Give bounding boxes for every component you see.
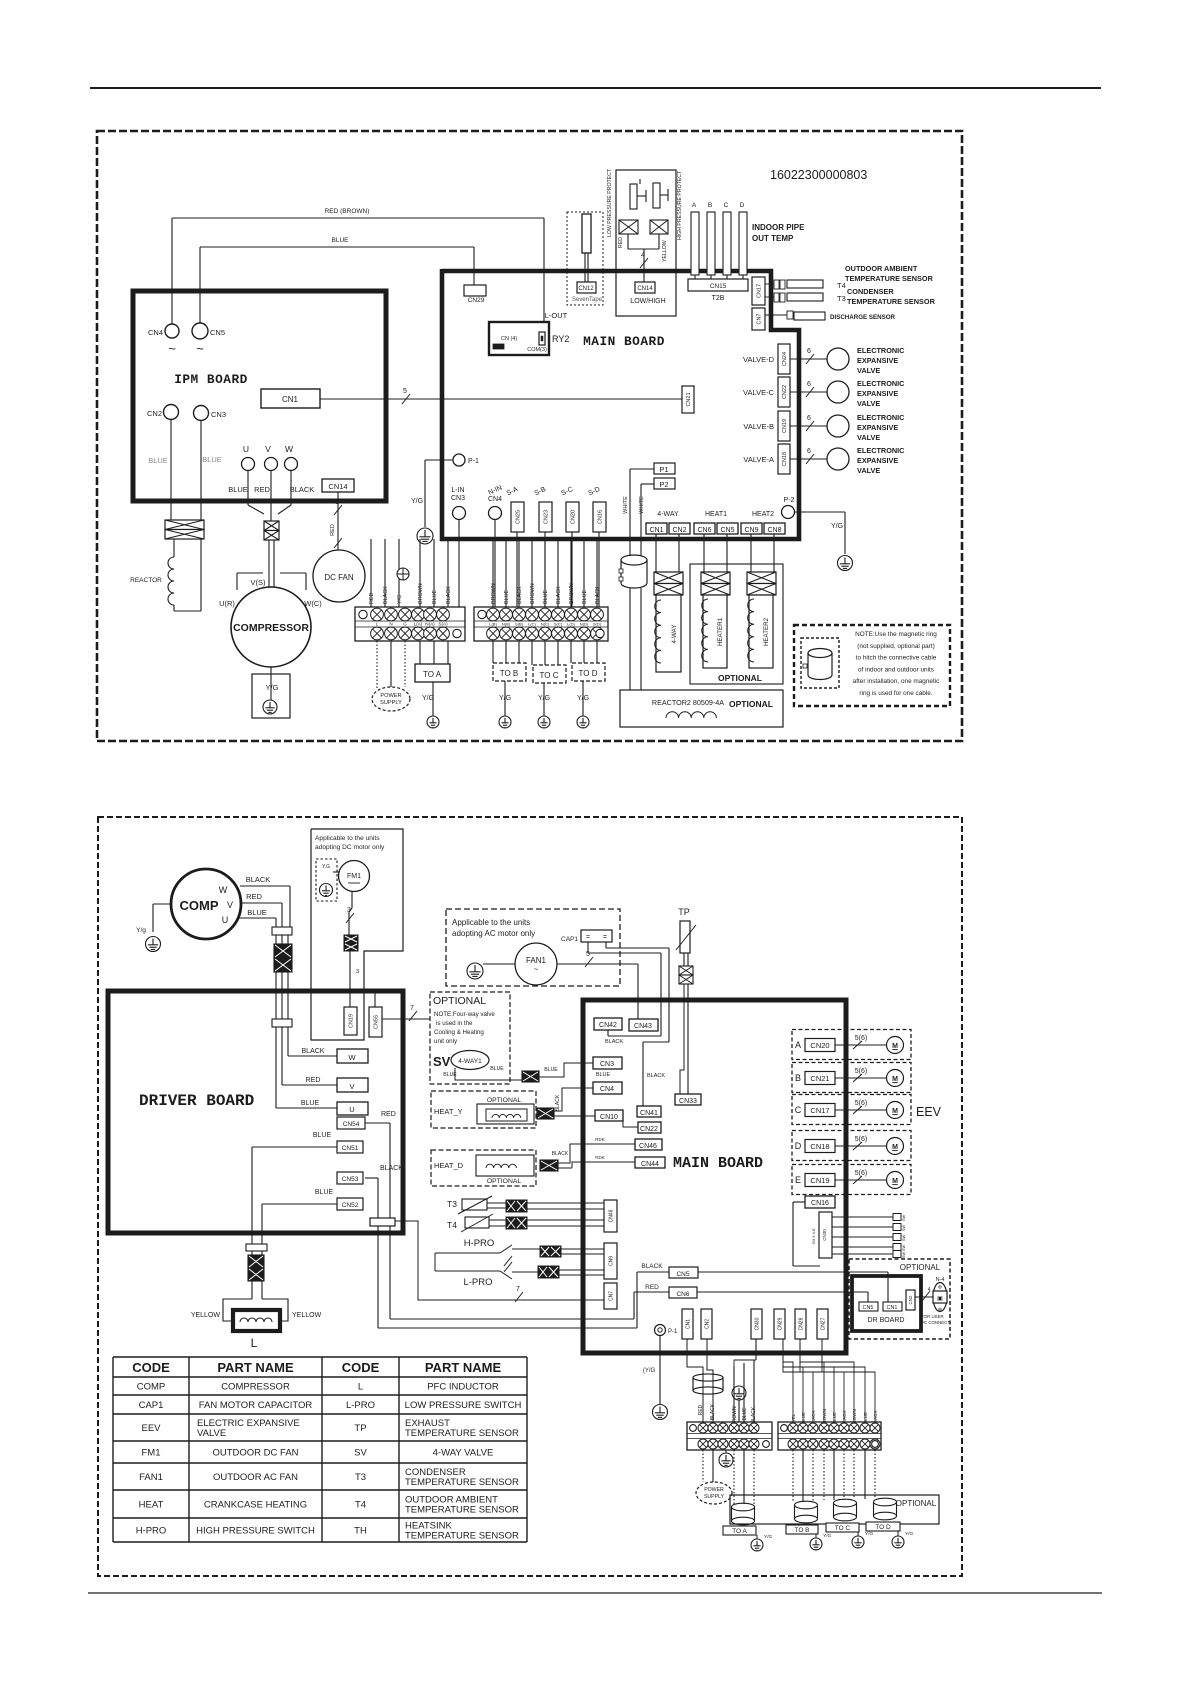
svg-text:~: ~ [168,341,176,356]
svg-text:Y/G: Y/G [865,1531,874,1537]
svg-text:OPTIONAL: OPTIONAL [433,995,486,1007]
svg-text:PFC INDUCTOR: PFC INDUCTOR [427,1382,499,1393]
svg-text:OUTDOOR AC FAN: OUTDOOR AC FAN [213,1472,298,1483]
svg-text:TEMPERATURE SENSOR: TEMPERATURE SENSOR [405,1477,519,1488]
svg-text:CN23: CN23 [543,510,549,524]
svg-text:M: M [892,1178,898,1185]
svg-text:5(6): 5(6) [855,1068,867,1075]
svg-text:CN17: CN17 [810,1106,829,1115]
svg-text:CN24: CN24 [782,352,788,366]
svg-text:CN3: CN3 [211,410,226,419]
svg-text:TO B: TO B [500,669,519,678]
svg-text:Y/G: Y/G [411,498,423,505]
svg-text:V: V [349,1082,354,1091]
svg-text:CN29: CN29 [777,1317,783,1330]
svg-text:7: 7 [410,1005,414,1012]
svg-text:T3: T3 [355,1472,366,1483]
svg-text:T4: T4 [355,1500,366,1511]
svg-text:CRANKCASE HEATING: CRANKCASE HEATING [204,1500,307,1511]
svg-text:L-IN: L-IN [451,487,464,494]
svg-text:BLUE: BLUE [313,1132,332,1139]
svg-text:L(D): L(D) [567,622,575,627]
svg-text:BLACK: BLACK [380,1165,403,1172]
svg-text:CN54: CN54 [343,1121,360,1128]
svg-text:RED: RED [698,1404,704,1415]
svg-text:CN5: CN5 [210,328,225,337]
svg-text:of indoor and outdoor units: of indoor and outdoor units [858,666,934,673]
svg-text:BLACK: BLACK [383,586,389,604]
svg-text:MAIN BOARD: MAIN BOARD [673,1155,763,1172]
svg-text:CN30: CN30 [754,1317,760,1330]
svg-text:L(B): L(B) [489,622,497,627]
svg-text:CN1: CN1 [649,527,663,534]
svg-text:T3: T3 [837,294,846,303]
svg-text:S(A): S(A) [438,622,448,627]
svg-text:CN46: CN46 [639,1143,657,1150]
svg-text:COMPRESSOR: COMPRESSOR [233,622,309,634]
svg-text:VALVE-B: VALVE-B [743,422,774,431]
svg-text:CN5: CN5 [676,1271,689,1278]
svg-text:Y.G: Y.G [322,864,330,870]
svg-text:RDK: RDK [595,1137,605,1142]
svg-text:CONDENSER: CONDENSER [847,287,894,296]
svg-text:D: D [740,202,745,209]
svg-text:CN41: CN41 [640,1110,658,1117]
svg-text:CN25: CN25 [515,510,521,524]
svg-text:ELECTRONIC: ELECTRONIC [857,413,905,422]
svg-text:HEATER1: HEATER1 [717,617,724,646]
svg-text:TO A: TO A [732,1528,747,1535]
svg-text:BLUE: BLUE [301,1100,320,1107]
svg-text:HEAT1: HEAT1 [705,511,727,518]
svg-text:BLUE: BLUE [582,590,588,604]
svg-text:L-OUT: L-OUT [545,311,568,320]
svg-text:TO A: TO A [423,670,442,679]
svg-text:4-WAY: 4-WAY [657,511,679,518]
svg-text:OPTIONAL: OPTIONAL [487,1097,522,1104]
svg-text:CODE: CODE [342,1360,380,1375]
svg-text:ELECTRONIC: ELECTRONIC [857,446,905,455]
svg-text:FAN MOTOR CAPACITOR: FAN MOTOR CAPACITOR [199,1400,313,1411]
svg-text:CN6: CN6 [676,1291,689,1298]
svg-text:CN3: CN3 [600,1061,614,1068]
svg-text:RY2: RY2 [552,334,569,344]
svg-text:Y/G: Y/G [831,523,843,530]
svg-text:BLUE: BLUE [543,590,549,604]
svg-text:HEAT2: HEAT2 [752,511,774,518]
svg-text:BROWN: BROWN [530,583,536,604]
svg-text:EXPANSIVE: EXPANSIVE [857,423,898,432]
svg-text:COMP: COMP [180,898,219,913]
svg-text:RED (BROWN): RED (BROWN) [325,208,370,215]
svg-text:FAN1: FAN1 [526,956,547,965]
svg-text:BROWN: BROWN [569,583,575,604]
svg-text:Applicable to the units: Applicable to the units [452,918,530,927]
svg-text:LOW PRESSURE SWITCH: LOW PRESSURE SWITCH [405,1400,522,1411]
svg-text:CN4: CN4 [148,328,163,337]
svg-text:VALVE: VALVE [857,466,880,475]
svg-text:TEMPERATURE SENSOR: TEMPERATURE SENSOR [845,274,934,283]
svg-text:M: M [892,1144,898,1151]
svg-text:C: C [795,1105,802,1115]
svg-text:CAP1: CAP1 [139,1400,164,1411]
svg-text:P1: P1 [659,465,668,474]
svg-text:CN2: CN2 [908,1295,913,1304]
svg-text:CN20: CN20 [810,1041,829,1050]
svg-text:B: B [795,1073,801,1083]
svg-text:T2B: T2B [712,295,725,302]
svg-text:REACTOR: REACTOR [130,577,162,584]
svg-text:4-WAY VALVE: 4-WAY VALVE [433,1448,494,1459]
svg-text:COMP: COMP [137,1382,166,1393]
svg-text:EXPANSIVE: EXPANSIVE [857,456,898,465]
svg-text:CN16: CN16 [597,510,603,524]
svg-text:OPTIONAL: OPTIONAL [896,1499,937,1508]
svg-text:BLUE: BLUE [228,485,248,494]
svg-text:W(C): W(C) [304,599,322,608]
svg-text:CN6: CN6 [697,527,711,534]
svg-text:L-PRO: L-PRO [346,1400,375,1411]
svg-text:DR BOARD: DR BOARD [868,1317,905,1324]
svg-text:4-WAY: 4-WAY [671,625,678,644]
svg-text:HIGH PRESSURE SWITCH: HIGH PRESSURE SWITCH [196,1526,315,1537]
svg-text:ring is used for one cable.: ring is used for one cable. [859,690,932,697]
svg-text:BLACK: BLACK [555,1094,561,1111]
svg-text:N(C): N(C) [541,622,550,627]
svg-text:PART NAME: PART NAME [425,1360,502,1375]
svg-text:CN14: CN14 [637,286,653,292]
svg-text:VALVE: VALVE [857,433,880,442]
svg-text:TEMPERATURE SENSOR: TEMPERATURE SENSOR [405,1505,519,1516]
svg-text:YEL: YEL [791,1413,796,1422]
svg-text:CN1: CN1 [282,395,299,404]
svg-text:P-1: P-1 [468,458,479,465]
svg-text:RDK: RDK [595,1155,605,1160]
svg-text:VALVE-A: VALVE-A [743,455,774,464]
svg-text:BLUE: BLUE [742,1407,748,1421]
svg-text:BLACK: BLACK [517,586,523,604]
svg-text:Y/g: Y/g [136,927,146,934]
svg-text:CN27: CN27 [820,1317,826,1330]
svg-text:A: A [795,1040,801,1050]
svg-text:W: W [219,885,228,895]
svg-text:U(R): U(R) [219,599,235,608]
svg-text:CN18: CN18 [782,452,788,466]
svg-text:T4: T4 [447,1220,457,1230]
svg-text:EXPANSIVE: EXPANSIVE [857,389,898,398]
svg-text:YELLOW: YELLOW [191,1312,221,1319]
svg-text:U: U [349,1105,354,1114]
svg-text:EXPANSIVE: EXPANSIVE [857,356,898,365]
svg-text:RED: RED [306,1077,321,1084]
svg-text:CN55: CN55 [373,1015,379,1029]
svg-text:=: = [603,934,607,941]
svg-text:U: U [222,915,229,925]
svg-text:P-1: P-1 [668,1329,678,1335]
svg-text:WHITE: WHITE [623,496,629,514]
svg-text:Y/G: Y/G [397,595,403,604]
svg-text:CN19: CN19 [782,419,788,433]
svg-text:M: M [892,1108,898,1115]
svg-text:BLUE: BLUE [148,456,168,465]
svg-text:H-PRO: H-PRO [464,1238,495,1249]
svg-text:RED: RED [369,593,375,604]
svg-text:BLACK: BLACK [710,1403,716,1420]
svg-text:L: L [376,622,379,627]
svg-text:▣: ▣ [937,1296,943,1302]
svg-text:CN19: CN19 [348,1014,354,1028]
svg-text:TO D: TO D [875,1524,891,1531]
svg-text:6: 6 [807,448,811,455]
svg-text:OPTIONAL: OPTIONAL [729,699,773,709]
svg-text:CN2: CN2 [147,409,162,418]
svg-text:VALVE: VALVE [197,1428,226,1439]
svg-text:BLACK: BLACK [647,1073,665,1079]
svg-text:P2: P2 [659,480,668,489]
svg-text:Y/G: Y/G [764,1534,773,1540]
svg-text:BLACK: BLACK [302,1048,325,1055]
svg-text:CN15: CN15 [710,283,727,290]
svg-text:is used in the: is used in the [436,1020,473,1027]
svg-text:L: L [358,1382,363,1393]
svg-text:CN21: CN21 [686,392,692,406]
svg-text:OUTDOOR DC FAN: OUTDOOR DC FAN [212,1448,298,1459]
svg-text:SV: SV [433,1054,451,1069]
svg-text:SW: SW [902,1245,906,1252]
svg-text:BLUE: BLUE [247,908,267,917]
svg-text:CN1: CN1 [886,1305,897,1311]
svg-text:W: W [285,444,293,454]
svg-text:CN2: CN2 [672,527,686,534]
svg-text:CN3: CN3 [451,495,465,502]
svg-text:TH: TH [354,1526,367,1537]
svg-text:6: 6 [807,415,811,422]
svg-text:TP: TP [678,907,690,917]
svg-text:PC CONNECT: PC CONNECT [921,1320,950,1325]
svg-text:SW: SW [902,1215,906,1222]
svg-text:C: C [724,202,729,209]
svg-text:OPTIONAL: OPTIONAL [900,1263,941,1272]
svg-text:LOW/HIGH: LOW/HIGH [630,298,665,305]
svg-text:L(A): L(A) [414,622,423,627]
svg-text:CN22: CN22 [782,385,788,399]
svg-text:BLACK: BLACK [595,586,601,604]
svg-text:(not supplied, optional part): (not supplied, optional part) [857,643,934,650]
svg-text:DRIVER BOARD: DRIVER BOARD [139,1092,254,1110]
svg-text:SV: SV [354,1448,367,1459]
svg-text:HEATER2: HEATER2 [763,617,770,646]
svg-text:Cooling & Heating: Cooling & Heating [434,1029,484,1036]
svg-text:CAP1: CAP1 [561,936,578,943]
svg-text:CN44: CN44 [641,1161,659,1168]
svg-text:TO B: TO B [794,1527,809,1534]
svg-text:RED: RED [645,1284,659,1291]
svg-text:B: B [708,202,712,209]
svg-text:~: ~ [534,965,539,974]
svg-text:SW: SW [902,1225,906,1232]
svg-text:RED: RED [330,524,336,536]
svg-text:CN29: CN29 [468,297,485,304]
svg-text:Y/G: Y/G [823,1533,832,1539]
svg-text:CN22: CN22 [640,1126,658,1133]
svg-text:unit only: unit only [434,1038,458,1045]
svg-text:SW: SW [902,1235,906,1242]
svg-text:5(6): 5(6) [855,1170,867,1177]
svg-text:CN7: CN7 [756,313,762,324]
svg-text:Y/G: Y/G [422,695,434,702]
svg-text:adopting AC motor only: adopting AC motor only [452,929,535,938]
svg-text:P-2: P-2 [784,497,795,504]
svg-text:3: 3 [335,499,339,506]
svg-text:S(C): S(C) [554,622,563,627]
svg-text:HEAT: HEAT [139,1500,164,1511]
svg-text:CODE: CODE [132,1360,170,1375]
svg-text:BLACK: BLACK [605,1039,623,1045]
svg-text:VALVE-D: VALVE-D [743,355,775,364]
svg-text:HIGH PRESSURE PROTECT: HIGH PRESSURE PROTECT [677,170,683,240]
svg-text:POWER: POWER [704,1487,724,1493]
svg-text:BLUE: BLUE [332,237,350,244]
svg-text:ELECTRONIC: ELECTRONIC [857,379,905,388]
svg-text:4: 4 [928,1287,931,1293]
svg-text:HEAT_Y: HEAT_Y [434,1107,463,1116]
svg-text:SevenTape: SevenTape [572,297,603,303]
svg-text:S(D): S(D) [593,622,602,627]
svg-text:SUPPLY: SUPPLY [704,1494,725,1500]
svg-text:V: V [227,900,233,910]
svg-text:L(C): L(C) [528,622,536,627]
svg-text:CN5: CN5 [720,527,734,534]
svg-text:OUT TEMP: OUT TEMP [752,234,794,243]
svg-text:FM1: FM1 [142,1448,161,1459]
svg-text:L-PRO: L-PRO [463,1277,492,1288]
svg-text:BLUE: BLUE [504,590,510,604]
svg-text:INDOOR PIPE: INDOOR PIPE [752,223,805,232]
svg-text:CN43: CN43 [634,1023,652,1030]
svg-text:B3 3 4-E: B3 3 4-E [811,1228,816,1244]
svg-text:N(A): N(A) [425,622,435,627]
svg-text:CN42: CN42 [599,1022,617,1029]
svg-text:CN1: CN1 [685,1319,691,1329]
svg-text:CN10: CN10 [600,1114,618,1121]
svg-text:BLACK: BLACK [446,586,452,604]
svg-text:Y/G: Y/G [266,683,279,692]
svg-text:IPM BOARD: IPM BOARD [174,372,248,387]
svg-text:5(6): 5(6) [855,1035,867,1042]
svg-text:N: N [389,622,392,627]
svg-text:TP: TP [354,1423,366,1434]
svg-text:BLUE: BLUE [596,1072,611,1078]
svg-text:CN51: CN51 [342,1145,359,1152]
svg-text:6: 6 [807,348,811,355]
svg-text:RED: RED [246,892,262,901]
svg-text:MAIN BOARD: MAIN BOARD [583,334,665,349]
svg-text:CN14: CN14 [328,482,347,491]
svg-text:⊕: ⊕ [938,1285,942,1291]
svg-text:CN30: CN30 [822,1229,827,1241]
svg-text:TO C: TO C [540,671,559,680]
svg-text:OPTIONAL: OPTIONAL [487,1178,522,1185]
svg-text:BLUE: BLUE [202,455,222,464]
svg-text:CN9: CN9 [744,527,758,534]
svg-text:CN5: CN5 [862,1305,873,1311]
svg-text:CN7: CN7 [608,1291,614,1301]
svg-text:OPTIONAL: OPTIONAL [718,673,762,683]
svg-text:YELLOW: YELLOW [662,240,668,262]
svg-text:SUPPLY: SUPPLY [380,700,402,706]
svg-text:OUTDOOR AMBIENT: OUTDOOR AMBIENT [845,264,918,273]
svg-text:CN52: CN52 [342,1202,359,1209]
svg-text:FAN1: FAN1 [139,1472,163,1483]
svg-text:COM(3): COM(3) [527,347,547,353]
svg-text:5: 5 [403,388,407,395]
svg-text:DC FAN: DC FAN [324,573,354,582]
svg-text:LOW PRESSURE PROTECT: LOW PRESSURE PROTECT [607,168,613,237]
svg-text:CN28: CN28 [798,1317,804,1330]
svg-text:CN4: CN4 [600,1086,614,1093]
svg-text:S(B): S(B) [515,622,524,627]
svg-text:G: G [403,622,407,627]
svg-text:CN21: CN21 [810,1074,829,1083]
svg-text:WHITE: WHITE [639,496,645,514]
svg-text:3: 3 [356,969,359,975]
svg-text:FM1: FM1 [347,873,361,880]
svg-text:CN (4): CN (4) [501,336,517,342]
svg-text:EEV: EEV [916,1105,942,1119]
svg-text:V: V [265,444,271,454]
svg-text:YELLOW: YELLOW [292,1312,322,1319]
svg-text:CN33: CN33 [679,1098,697,1105]
svg-text:7: 7 [516,1286,520,1293]
svg-text:4: 4 [641,252,645,259]
svg-text:H-PRO: H-PRO [136,1526,167,1537]
svg-text:TEMPERATURE SENSOR: TEMPERATURE SENSOR [405,1531,519,1542]
svg-text:VALVE: VALVE [857,399,880,408]
svg-text:TO D: TO D [579,669,598,678]
svg-text:BLUE: BLUE [432,590,438,604]
svg-text:CN53: CN53 [342,1176,359,1183]
svg-text:CN18: CN18 [810,1142,829,1151]
svg-text:(Y/G: (Y/G [643,1368,656,1374]
svg-text:T3: T3 [447,1199,457,1209]
svg-text:REACTOR2 80509-4A: REACTOR2 80509-4A [652,698,724,707]
svg-text:NOTE:Use the magnetic ring: NOTE:Use the magnetic ring [855,631,937,638]
svg-text:CN16: CN16 [811,1200,829,1207]
svg-text:CN20: CN20 [570,510,576,524]
svg-text:~: ~ [196,341,204,356]
svg-text:DISCHARGE SENSOR: DISCHARGE SENSOR [830,314,896,321]
svg-text:BROWN: BROWN [491,583,497,604]
svg-text:CN4: CN4 [488,496,502,503]
svg-text:RED: RED [618,237,624,248]
svg-text:⊕: ⊕ [938,1307,942,1313]
svg-text:POWER: POWER [380,693,401,699]
svg-text:BLACK: BLACK [552,1151,569,1157]
svg-text:CN2: CN2 [704,1319,710,1329]
svg-text:TEMPERATURE SENSOR: TEMPERATURE SENSOR [405,1428,519,1439]
svg-text:A: A [692,202,697,209]
svg-text:6: 6 [807,381,811,388]
svg-text:CN8: CN8 [767,527,781,534]
svg-text:N(B): N(B) [502,622,511,627]
svg-text:W: W [348,1053,356,1062]
svg-text:RED: RED [381,1111,396,1118]
svg-text:ELECTRONIC: ELECTRONIC [857,346,905,355]
svg-text:after installation, one magnet: after installation, one magnetic [853,678,940,685]
svg-text:NOTE:Four-way valve: NOTE:Four-way valve [434,1011,495,1018]
svg-text:M: M [892,1043,898,1050]
svg-text:E: E [795,1175,801,1185]
